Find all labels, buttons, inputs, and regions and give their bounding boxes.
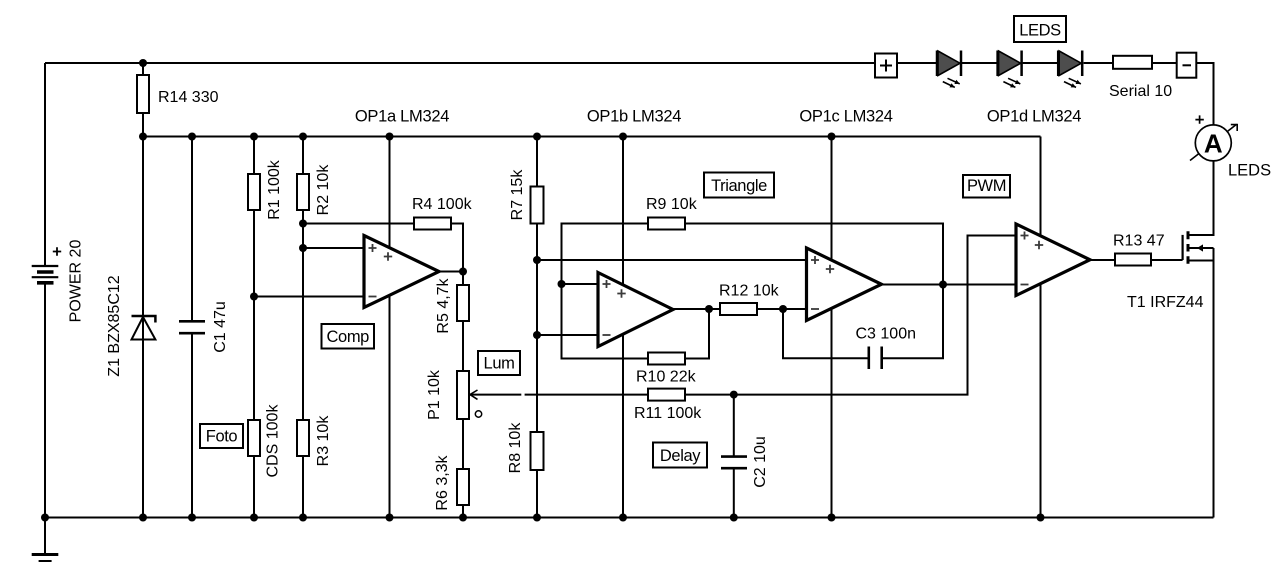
node: ground rail junction at C1 [188, 514, 196, 522]
node: V+ rail junction at OP1a power [386, 133, 394, 141]
wire: OP1a inverting input line [254, 296, 364, 298]
resistor R8 [531, 432, 544, 470]
label box: Lum [478, 351, 520, 375]
node: V+ rail junction at R7 [533, 133, 541, 141]
LED D1 [936, 51, 939, 77]
wire: R1/CDS column [253, 137, 255, 518]
wire: R9 left branch [562, 224, 649, 359]
wire: R9 right to OP1c output [685, 224, 943, 285]
node: ground rail junction at OP1d power [1037, 514, 1045, 522]
wire: R7 node to OP1c + input [537, 259, 807, 261]
svg-text:OP1a LM324: OP1a LM324 [355, 108, 449, 126]
wire: MOSFET source lead and right vertical [1188, 248, 1214, 518]
svg-text:R4 100k: R4 100k [412, 196, 473, 213]
battery POWER 20 [32, 266, 59, 277]
label: + ammeter polarity [1195, 115, 1203, 123]
node: V+ rail junction at R1 [250, 133, 258, 141]
wire: R14 column [142, 63, 144, 137]
svg-text:T1 IRFZ44: T1 IRFZ44 [1127, 294, 1204, 311]
potentiometer P1 wiper terminal circle [475, 411, 481, 417]
node: C2/R11 delay node [730, 391, 738, 399]
label box: Delay [653, 443, 707, 468]
wire: OP1d power line [1040, 137, 1042, 518]
resistor R13 [1115, 254, 1151, 266]
svg-text:LEDS: LEDS [1019, 22, 1061, 40]
svg-text:OP1c LM324: OP1c LM324 [799, 108, 892, 126]
wire: OP1a output [439, 271, 463, 273]
svg-text:R8 10k: R8 10k [507, 422, 524, 474]
wire: OP1b non-inverting input line [562, 283, 599, 285]
node: OP1a output node [459, 268, 467, 276]
wire: OP1c power line [831, 137, 833, 518]
terminal box: - LED supply [1177, 53, 1197, 78]
node: ground rail junction at R3 [299, 514, 307, 522]
wire: C2 leads [733, 395, 735, 518]
node: V+ rail junction at OP1c power [828, 133, 836, 141]
svg-text:Foto: Foto [206, 428, 238, 446]
svg-text:R9 10k: R9 10k [646, 196, 698, 213]
svg-text:Serial 10: Serial 10 [1109, 83, 1172, 100]
ammeter A (LED current) [1190, 124, 1237, 160]
node: OP1a + input node [299, 244, 307, 252]
wire: minus terminal to ammeter [1196, 63, 1213, 125]
terminal box: + LED supply [875, 54, 897, 78]
wire: OP1a non-inverting input line [303, 247, 364, 249]
label box: LEDS [1014, 16, 1066, 42]
transistor T1 (MOSFET) [1181, 235, 1183, 260]
capacitor C3 [867, 347, 870, 370]
svg-text:C1 47u: C1 47u [212, 301, 229, 353]
label box: Comp [322, 324, 375, 349]
wire: OP1b inverting input line [537, 334, 598, 336]
wire: battery left vertical [44, 63, 46, 518]
svg-text:OP1b LM324: OP1b LM324 [587, 108, 681, 126]
resistor R12 [720, 303, 757, 315]
resistor R14 [137, 75, 149, 113]
wire: ammeter to MOSFET drain [1188, 161, 1214, 235]
svg-text:R11 100k: R11 100k [634, 405, 702, 422]
resistor R1 [248, 174, 260, 210]
svg-text:R1 100k: R1 100k [266, 159, 283, 220]
resistor R10 [648, 353, 685, 365]
op-amp OP1a [364, 236, 439, 308]
svg-text:R3 10k: R3 10k [315, 415, 332, 467]
node: OP1c output node [939, 281, 947, 289]
ground [32, 553, 59, 556]
node: ground rail junction at battery [41, 514, 49, 522]
node: OP1c - input node [779, 305, 787, 313]
resistor Serial 10 [1113, 56, 1152, 69]
wire: C3 right lead [882, 285, 943, 359]
svg-text:R14 330: R14 330 [158, 89, 219, 106]
resistor R7 [531, 187, 544, 224]
wire: R10 right to OP1b output [685, 309, 709, 359]
resistor R5 [457, 285, 469, 321]
wire: ground bottom rail [45, 517, 1214, 519]
resistor R6 [457, 469, 469, 505]
svg-text:CDS 100k: CDS 100k [265, 404, 282, 478]
wire: R4 to OP1a output [451, 224, 463, 272]
label box: Foto [200, 424, 243, 448]
node: OP1a feedback node [299, 220, 307, 228]
wire: R5/P1/R6 column [462, 272, 464, 518]
svg-text:PWM: PWM [967, 177, 1006, 195]
wire: ground stem [44, 518, 46, 554]
node: R7/R8 divider tap to OP1c+ [533, 256, 541, 264]
wire: OP1d output to R13 [1090, 259, 1115, 261]
capacitor C1 [179, 320, 205, 323]
wire: OP1b power line [622, 137, 624, 518]
wire: OP1b output to R12 [673, 308, 720, 310]
node: ground rail junction at OP1a power [386, 514, 394, 522]
svg-text:Lum: Lum [484, 355, 515, 373]
potentiometer P1 wiper arrow [470, 390, 478, 399]
wire: R13 to gate [1151, 259, 1183, 261]
op-amp OP1c [807, 248, 882, 321]
svg-text:LEDS: LEDS [1228, 161, 1271, 179]
node: OP1b + input node [558, 280, 566, 288]
potentiometer P1 [457, 371, 469, 419]
resistor R11 [648, 389, 685, 401]
node: V+ rail junction at OP1b power [619, 133, 627, 141]
wire: R2/R3 column [302, 137, 304, 518]
wire: Z1 column [142, 137, 144, 518]
node: ground rail junction at OP1c power [828, 514, 836, 522]
label: + battery polarity [53, 247, 61, 255]
wire: C3 left lead [783, 309, 869, 358]
op-amp OP1b [598, 273, 673, 347]
wire: R7/R8 column [536, 137, 538, 518]
resistor R4 [414, 218, 451, 230]
node: V+ rail junction at R2 [299, 133, 307, 141]
svg-text:C2 10u: C2 10u [752, 436, 769, 488]
wire: LED chain segments [897, 62, 1177, 64]
node: OP1a - input node [250, 293, 258, 301]
wire: R12 to OP1c inverting input [757, 308, 807, 310]
wire: C1 column [191, 137, 193, 518]
node: ground rail junction at OP1b power [619, 514, 627, 522]
svg-text:R2 10k: R2 10k [315, 164, 332, 216]
svg-text:Comp: Comp [327, 328, 370, 346]
svg-text:R13 47: R13 47 [1113, 233, 1165, 250]
svg-text:Z1 BZX85C12: Z1 BZX85C12 [106, 275, 123, 376]
node: V+ rail junction at C1 [188, 133, 196, 141]
label box: Triangle [704, 173, 774, 198]
wire: feedback node to R4 [303, 223, 414, 225]
svg-text:OP1d LM324: OP1d LM324 [987, 108, 1081, 126]
svg-text:P1 10k: P1 10k [426, 369, 443, 420]
svg-text:Delay: Delay [660, 447, 701, 465]
wire: OP1c output to OP1d inverting input [882, 284, 1017, 286]
zener diode Z1 [132, 316, 156, 323]
op-amp OP1d [1016, 224, 1090, 296]
node: R14 top rail junction [139, 59, 147, 67]
label box: PWM [963, 175, 1010, 198]
svg-text:R7 15k: R7 15k [509, 169, 526, 221]
capacitor C2 [721, 455, 747, 458]
node: ground rail junction at R6 [459, 514, 467, 522]
resistor R3 [297, 420, 309, 456]
node: R7/R8 divider tap to OP1b- [533, 331, 541, 339]
node: ground rail junction at Z1 [139, 514, 147, 522]
wire: OP1a power line [389, 137, 391, 518]
LED D2 [996, 51, 999, 77]
LED D3 [1057, 51, 1060, 77]
wire: V+ supply rail [143, 136, 1041, 138]
node: V+ rail junction at Z1 [139, 133, 147, 141]
svg-text:R5 4,7k: R5 4,7k [435, 277, 452, 333]
photoresistor CDS [248, 420, 260, 456]
svg-text:R12 10k: R12 10k [719, 283, 780, 300]
node: ground rail junction at R8 [533, 514, 541, 522]
svg-text:C3 100n: C3 100n [856, 326, 917, 343]
node: ground rail junction at CDS [250, 514, 258, 522]
svg-text:R6 3,3k: R6 3,3k [434, 454, 451, 510]
node: OP1b output node [705, 305, 713, 313]
wire: MOSFET body lead [1188, 247, 1214, 249]
resistor R2 [297, 174, 309, 210]
wire: top positive rail [45, 62, 875, 64]
node: ground rail junction at C2 [730, 514, 738, 522]
svg-text:POWER 20: POWER 20 [68, 240, 85, 323]
wire: Lum/R11 line to OP1d + input [470, 236, 1016, 395]
resistor R9 [648, 218, 685, 230]
svg-text:R10 22k: R10 22k [636, 369, 697, 386]
svg-text:Triangle: Triangle [711, 177, 767, 195]
svg-text:A: A [1204, 129, 1223, 159]
